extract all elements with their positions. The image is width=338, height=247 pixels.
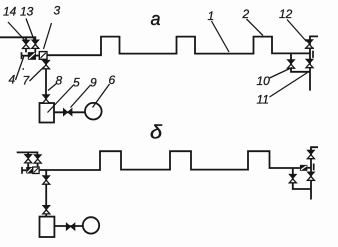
- svg-text:9: 9: [90, 76, 97, 90]
- svg-text:12: 12: [279, 7, 293, 21]
- svg-text:14: 14: [3, 5, 17, 19]
- svg-text:1: 1: [208, 9, 215, 23]
- svg-text:2: 2: [242, 7, 250, 21]
- svg-text:4: 4: [9, 73, 16, 87]
- svg-text:6: 6: [109, 73, 116, 87]
- svg-text:3: 3: [54, 4, 61, 18]
- svg-text:δ: δ: [150, 123, 162, 144]
- svg-text:8: 8: [56, 74, 63, 88]
- svg-text:а: а: [151, 9, 161, 29]
- svg-text:13: 13: [20, 5, 34, 19]
- svg-text:11: 11: [257, 93, 269, 107]
- svg-text:10: 10: [257, 74, 271, 88]
- svg-text:5: 5: [73, 76, 80, 90]
